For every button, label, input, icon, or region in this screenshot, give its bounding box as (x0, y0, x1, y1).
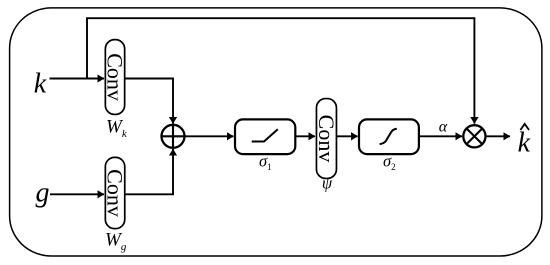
wire: multiplier output to k-hat (487, 135, 510, 137)
node k-hat (output label) (518, 124, 531, 159)
wire: g input to Conv Wg (50, 193, 104, 195)
svg-text:ψ: ψ (322, 174, 333, 193)
svg-text:g: g (36, 178, 50, 209)
wire: adder to relu box (185, 135, 234, 137)
wire: Conv psi to sigmoid box (336, 135, 357, 137)
svg-text:k: k (518, 128, 531, 159)
svg-text:Wg: Wg (105, 230, 127, 254)
wire: skip connection from k line up and across top to multiplier (87, 18, 474, 123)
multiplier node (circle-times) (463, 125, 485, 147)
conv block psi (box) (314, 99, 339, 179)
svg-text:Wk: Wk (106, 117, 128, 141)
relu block sigma1 (box) (235, 119, 295, 154)
svg-text:α: α (439, 119, 448, 136)
wire: relu to Conv psi (296, 135, 315, 137)
svg-text:Conv: Conv (103, 53, 128, 101)
wire: Conv Wk output down into adder (125, 79, 173, 124)
wire: Conv Wg output up into adder (125, 149, 173, 194)
svg-text:Conv: Conv (103, 169, 128, 217)
sigmoid block sigma2 (box) (359, 119, 419, 154)
svg-text:k: k (34, 69, 47, 100)
wire: k input to Conv Wk (50, 78, 105, 80)
conv block Wg (box) (103, 157, 128, 228)
adder node (circle-plus) (162, 125, 185, 148)
conv block Wk (box) (103, 40, 128, 115)
wire: sigmoid output alpha to multiplier (419, 135, 462, 137)
svg-text:Conv: Conv (314, 115, 339, 163)
